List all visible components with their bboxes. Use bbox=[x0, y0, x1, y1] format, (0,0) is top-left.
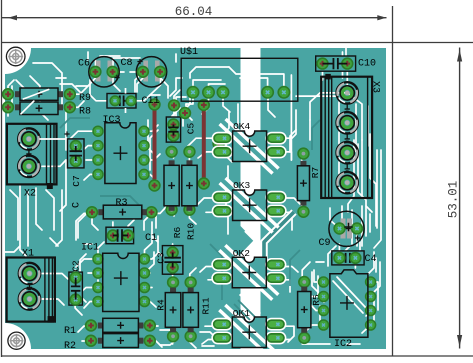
svg-text:R4: R4 bbox=[156, 299, 167, 311]
svg-text:U$1: U$1 bbox=[180, 46, 198, 58]
svg-text:IC2: IC2 bbox=[334, 339, 352, 350]
svg-text:C5: C5 bbox=[186, 123, 197, 135]
svg-text:R2: R2 bbox=[64, 341, 76, 352]
svg-text:C2: C2 bbox=[70, 260, 81, 272]
svg-text:C3: C3 bbox=[155, 252, 166, 264]
svg-text:R10: R10 bbox=[186, 223, 197, 240]
svg-text:OK4: OK4 bbox=[233, 121, 250, 132]
svg-text:OK1: OK1 bbox=[233, 308, 250, 319]
svg-text:C7: C7 bbox=[71, 175, 82, 186]
svg-text:R9: R9 bbox=[79, 93, 91, 104]
svg-text:C8: C8 bbox=[121, 58, 133, 69]
svg-text:X2: X2 bbox=[24, 189, 36, 200]
svg-text:C9: C9 bbox=[319, 238, 331, 249]
svg-text:C10: C10 bbox=[358, 59, 376, 70]
svg-text:R8: R8 bbox=[79, 107, 91, 118]
svg-text:IC3: IC3 bbox=[103, 115, 121, 126]
svg-text:66.04: 66.04 bbox=[175, 5, 213, 19]
svg-text:R1: R1 bbox=[64, 326, 76, 337]
svg-text:IC1: IC1 bbox=[81, 243, 99, 254]
svg-text:OK2: OK2 bbox=[233, 248, 250, 259]
svg-text:C1: C1 bbox=[145, 233, 157, 244]
svg-text:R7: R7 bbox=[310, 167, 321, 178]
svg-text:C6: C6 bbox=[78, 59, 90, 70]
svg-text:R11: R11 bbox=[201, 297, 212, 314]
svg-text:OK3: OK3 bbox=[233, 180, 250, 191]
svg-text:X3: X3 bbox=[370, 81, 381, 93]
svg-text:C4: C4 bbox=[365, 254, 377, 265]
svg-text:C: C bbox=[71, 202, 82, 208]
svg-text:X1: X1 bbox=[22, 249, 34, 260]
svg-text:R3: R3 bbox=[116, 198, 128, 209]
svg-text:53.01: 53.01 bbox=[447, 181, 461, 219]
svg-text:C11: C11 bbox=[142, 96, 160, 107]
svg-text:R6: R6 bbox=[172, 227, 183, 239]
